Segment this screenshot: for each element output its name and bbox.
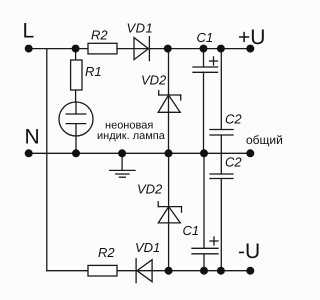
wire top rail (29, 48, 251, 50)
wire middle rail (29, 152, 251, 154)
resistor R2 (top) (88, 43, 117, 54)
svg-text:C1: C1 (197, 30, 214, 45)
svg-text:R1: R1 (85, 64, 102, 79)
terminal общий dot (246, 149, 254, 157)
node junction VD2 middle (165, 149, 173, 157)
svg-text:общий: общий (246, 133, 283, 147)
node junction C1 middle (200, 149, 208, 157)
node junction VD1/VD2 top (164, 45, 172, 53)
zener diode VD2 (lower) (158, 153, 181, 270)
node junction ground (118, 149, 126, 157)
terminal +U dot (246, 45, 254, 53)
node junction C1 bottom (200, 267, 208, 275)
resistor R2 (bottom) (88, 265, 117, 276)
svg-text:C2: C2 (225, 112, 242, 127)
svg-text:+U: +U (238, 26, 265, 49)
svg-text:C1: C1 (183, 223, 200, 238)
node junction C2 bottom (217, 267, 225, 275)
wire left vertical drop from L line (46, 49, 48, 271)
capacitor C1 (top, polarized) (193, 49, 218, 154)
svg-text:C2: C2 (225, 155, 242, 170)
svg-text:VD1: VD1 (135, 240, 160, 255)
node junction VD1/VD2 bottom (165, 267, 173, 275)
neon lamp (59, 102, 93, 153)
wire bottom rail (47, 270, 251, 272)
svg-text:R2: R2 (91, 28, 108, 43)
svg-text:L: L (23, 20, 35, 43)
capacitor C2 (lower) (210, 174, 233, 271)
svg-text:VD2: VD2 (141, 73, 167, 88)
diode VD1 (bottom) (136, 259, 152, 283)
svg-text:VD1: VD1 (127, 21, 154, 36)
svg-text:-U: -U (238, 240, 260, 263)
node junction R1 top (72, 45, 80, 53)
capacitor C1 (lower, polarized) (192, 153, 218, 270)
node junction lamp bottom (72, 149, 80, 157)
node N terminal dot (25, 149, 33, 157)
diode VD1 (top) (134, 37, 149, 61)
zener diode VD2 (upper) (158, 49, 181, 154)
capacitor C2 (upper) (210, 49, 233, 174)
node junction C2 top (217, 45, 225, 53)
svg-text:VD2: VD2 (137, 182, 163, 197)
svg-text:индик. лампа: индик. лампа (97, 130, 166, 142)
node junction C1 top (200, 45, 208, 53)
node L terminal dot (25, 45, 33, 53)
svg-text:N: N (25, 126, 40, 149)
resistor R1 (71, 49, 82, 102)
terminal -U dot (246, 267, 254, 275)
svg-text:R2: R2 (98, 245, 115, 260)
ground (110, 153, 135, 177)
